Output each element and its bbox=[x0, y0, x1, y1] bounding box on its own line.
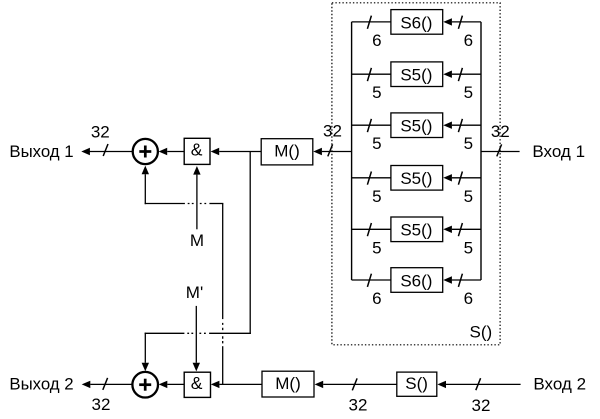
wire left stub row 4 bbox=[352, 177, 391, 179]
bus slash bottom-right bbox=[476, 378, 481, 390]
svg-text:S5(): S5() bbox=[400, 117, 432, 136]
svg-text:5: 5 bbox=[464, 187, 473, 206]
wire right stub row 1 bbox=[452, 21, 481, 23]
S-box S5() row 3 bbox=[391, 113, 443, 138]
wire right stub row 6 bbox=[452, 279, 481, 281]
arrowhead up into XOR1 bottom bbox=[142, 166, 149, 175]
wire M mask vertical bbox=[196, 175, 198, 230]
wire S() to M()2 bbox=[323, 383, 397, 385]
slash left row 5 bbox=[367, 223, 371, 236]
wire M()2 to AND2 (junction with V3) bbox=[219, 383, 262, 385]
arrowhead up into AND1 bottom bbox=[193, 166, 200, 175]
svg-text:S(): S() bbox=[470, 322, 493, 341]
AND gate box bottom bbox=[184, 372, 210, 397]
wire Выход1 to XOR1 bbox=[90, 151, 133, 153]
wire left stub row 3 bbox=[352, 124, 391, 126]
svg-text:32: 32 bbox=[92, 395, 111, 414]
wire L2 solid right bbox=[209, 332, 251, 334]
function box M() bottom bbox=[262, 371, 314, 397]
svg-text:6: 6 bbox=[372, 289, 381, 308]
arrowhead down into XOR2 top bbox=[142, 363, 149, 372]
dotted box S() assembly bbox=[332, 3, 500, 345]
wire L2 solid left bbox=[145, 332, 185, 334]
wire Выход2 to XOR2 bbox=[90, 383, 132, 385]
wire V5 down to XOR2 bbox=[144, 333, 146, 363]
svg-text:5: 5 bbox=[464, 134, 473, 153]
svg-text:&: & bbox=[191, 140, 203, 160]
svg-text:6: 6 bbox=[464, 289, 473, 308]
wire V3 upper (from M()2 output) bbox=[222, 204, 224, 320]
wire left stub row 2 bbox=[352, 73, 391, 75]
wire V4 (M()1 output down) bbox=[249, 152, 251, 334]
arrowhead into AND2 bbox=[211, 381, 220, 388]
arrowhead into S-box row 5 bbox=[443, 226, 452, 233]
svg-text:S6(): S6() bbox=[400, 271, 432, 290]
slash left row 3 bbox=[367, 119, 371, 132]
slash right row 5 bbox=[458, 223, 462, 236]
arrowhead into S-box row 3 bbox=[443, 122, 452, 129]
arrowhead down into AND2 top bbox=[193, 363, 200, 372]
bus slash bottom-mid bbox=[352, 378, 357, 390]
AND gate box top bbox=[184, 138, 210, 164]
function box M() top bbox=[261, 139, 313, 165]
svg-text:S(): S() bbox=[405, 374, 428, 393]
arrowhead into M()2 bbox=[315, 381, 324, 388]
arrowhead into S-box row 1 bbox=[443, 18, 452, 25]
wire AND1 to XOR1 bbox=[167, 151, 184, 153]
svg-text:S5(): S5() bbox=[400, 221, 432, 240]
bus slash top-right bbox=[497, 144, 502, 156]
svg-text:32: 32 bbox=[349, 395, 368, 414]
wire right stub row 2 bbox=[452, 73, 481, 75]
svg-text:S6(): S6() bbox=[400, 13, 432, 32]
svg-text:S5(): S5() bbox=[400, 169, 432, 188]
wire M()1 to AND1 bbox=[219, 151, 261, 153]
arrowhead into Выход 1 bbox=[81, 148, 90, 155]
wire left stub row 6 bbox=[352, 279, 391, 281]
slash right row 2 bbox=[458, 68, 462, 81]
svg-text:M(): M() bbox=[274, 142, 299, 161]
wire M' mask vertical bbox=[195, 306, 197, 363]
function box S() bottom bbox=[397, 372, 437, 396]
slash left row 6 bbox=[367, 274, 371, 287]
svg-text:6: 6 bbox=[464, 31, 473, 50]
arrowhead into S() bottom bbox=[437, 381, 446, 388]
arrowhead into S-box row 4 bbox=[443, 174, 452, 181]
bus slash bottom-left bbox=[103, 378, 108, 390]
XOR adder circle top bbox=[133, 139, 158, 164]
svg-text:&: & bbox=[191, 373, 203, 393]
bus slash left of S-assembly bbox=[328, 144, 333, 156]
wire L1 solid right bbox=[209, 203, 223, 205]
wire L2 dotted crossing M' bbox=[187, 332, 209, 334]
svg-text:32: 32 bbox=[472, 396, 491, 415]
slash left row 2 bbox=[367, 68, 371, 81]
arrowhead into S-box row 6 bbox=[443, 276, 452, 283]
svg-text:M: M bbox=[190, 231, 204, 250]
arrowhead into AND1 bbox=[211, 148, 220, 155]
arrowhead into XOR1 bbox=[159, 148, 168, 155]
svg-text:5: 5 bbox=[372, 187, 381, 206]
wire left stub row 1 bbox=[352, 21, 391, 23]
slash right row 4 bbox=[458, 172, 462, 185]
svg-text:Вход 2: Вход 2 bbox=[533, 374, 586, 393]
svg-text:5: 5 bbox=[372, 83, 381, 102]
wire AND2 to XOR2 bbox=[167, 383, 184, 385]
slash right row 3 bbox=[458, 119, 462, 132]
wire right stub row 3 bbox=[452, 124, 481, 126]
svg-text:S5(): S5() bbox=[400, 66, 432, 85]
slash right row 6 bbox=[458, 274, 462, 287]
wire L1 solid left bbox=[145, 203, 185, 205]
svg-text:M(): M() bbox=[275, 374, 300, 393]
wire XOR1 feedback vertical bbox=[144, 174, 146, 204]
wire Вход2 to S() bbox=[446, 383, 521, 385]
S-box S6() row 6 bbox=[391, 268, 443, 293]
svg-text:32: 32 bbox=[91, 123, 110, 142]
wire L1 dotted crossing M bbox=[188, 203, 210, 205]
svg-text:5: 5 bbox=[372, 238, 381, 257]
right bus wire of S-assembly bbox=[480, 22, 482, 280]
svg-text:5: 5 bbox=[464, 238, 473, 257]
wire right stub row 4 bbox=[452, 177, 481, 179]
slash left row 1 bbox=[367, 16, 371, 29]
arrowhead into Выход 2 bbox=[82, 381, 91, 388]
wire right stub row 5 bbox=[452, 228, 481, 230]
bus slash top-left bbox=[103, 144, 108, 156]
slash right row 1 bbox=[458, 16, 462, 29]
wire Sbox-bus to M()1 bbox=[322, 151, 352, 153]
wire left stub row 5 bbox=[352, 228, 391, 230]
slash left row 4 bbox=[367, 172, 371, 185]
S-box S6() row 1 bbox=[391, 10, 443, 35]
S-box S5() row 2 bbox=[391, 62, 443, 87]
svg-text:Выход 2: Выход 2 bbox=[9, 374, 73, 393]
XOR adder circle bottom bbox=[132, 372, 158, 398]
svg-text:Выход 1: Выход 1 bbox=[9, 142, 73, 161]
wire Вход1 to right bus bbox=[481, 151, 520, 153]
svg-text:5: 5 bbox=[464, 83, 473, 102]
arrowhead into M()1 bbox=[313, 148, 322, 155]
svg-text:32: 32 bbox=[323, 122, 342, 141]
wire V3 lower bbox=[222, 346, 224, 384]
S-box S5() row 5 bbox=[391, 217, 443, 242]
S-box S5() row 4 bbox=[391, 166, 443, 191]
svg-text:Вход 1: Вход 1 bbox=[532, 142, 585, 161]
arrowhead into XOR2 bbox=[159, 381, 168, 388]
svg-text:32: 32 bbox=[491, 122, 510, 141]
svg-text:6: 6 bbox=[372, 31, 381, 50]
svg-text:5: 5 bbox=[372, 134, 381, 153]
left bus wire of S-assembly bbox=[351, 22, 353, 280]
arrowhead into S-box row 2 bbox=[443, 71, 452, 78]
svg-text:M': M' bbox=[186, 283, 203, 302]
wire V3 dotted crossing L2 bbox=[222, 323, 224, 344]
